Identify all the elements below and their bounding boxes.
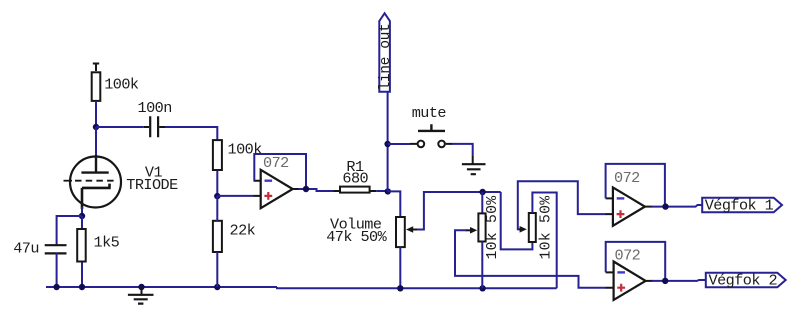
flag Végfok 2	[706, 272, 786, 290]
triode plate	[81, 155, 108, 173]
node E (pot1 top tee)	[479, 189, 485, 195]
svg-text:Végfok 1: Végfok 1	[705, 197, 774, 215]
op-amp U3 minus	[617, 271, 625, 273]
resistor R 100k (anode load)	[92, 72, 139, 101]
op-amp U1 triangle	[261, 170, 293, 208]
wire volume wiper up and right	[417, 192, 501, 230]
op-amp U2 feedback wire	[606, 164, 665, 207]
node A (plate node)	[93, 124, 99, 130]
flag Végfok 1	[702, 197, 782, 215]
wire 1k5 bottom to bus	[81, 263, 83, 288]
triode V1 envelope	[70, 157, 121, 208]
op-amp U3 feedback wire	[606, 242, 666, 281]
op-amp U3 triangle	[614, 262, 646, 300]
op-amp U3 plus	[617, 284, 625, 292]
node D (mute tee)	[384, 141, 390, 147]
op-amp U1 input stubs	[254, 181, 261, 196]
bus junction 22k	[214, 284, 220, 290]
wire node K to 1k5	[81, 216, 83, 229]
wire volume pot bottom to bus	[399, 247, 401, 288]
wire line out down to node C	[387, 92, 389, 192]
wire node C to volume pot top	[388, 191, 401, 217]
wire 47u bottom to bus	[56, 253, 58, 287]
line out flag	[378, 13, 394, 91]
label V1 TRIODE	[126, 163, 178, 194]
ground bus right	[277, 287, 557, 288]
wire pot1 wiper to op-amp U3 plus	[455, 230, 606, 287]
triode cathode	[82, 184, 111, 209]
op-amp U2 plus	[617, 210, 625, 218]
resistor R 100k (divider top)	[213, 140, 262, 170]
resistor R 22k	[213, 221, 256, 252]
bus junction ground	[138, 284, 144, 290]
svg-text:10k 50%: 10k 50%	[485, 196, 501, 260]
svg-text:10k 50%: 10k 50%	[539, 196, 555, 260]
op-amp U3 input stubs	[606, 272, 614, 287]
wire node D to mute switch	[388, 143, 410, 145]
wire pot2 top to ground bus	[532, 193, 556, 289]
svg-text:mute: mute	[412, 104, 447, 122]
wire cap to 2nd 100k resistor	[165, 127, 217, 141]
node K (cathode node)	[79, 213, 85, 219]
node U2 out	[662, 203, 668, 209]
wire cathode to node K	[81, 207, 83, 216]
svg-text:47k 50%: 47k 50%	[326, 228, 387, 246]
wire 100k2 bottom to node B	[216, 171, 218, 196]
potentiometer Volume wiper arrow	[406, 226, 418, 233]
svg-text:line out: line out	[378, 24, 394, 91]
potentiometer Volume 47k body	[326, 216, 405, 248]
wire mute switch to ground	[452, 144, 473, 156]
resistor R1 680	[340, 158, 370, 193]
wire node A down to triode plate	[95, 127, 97, 157]
wire node B to op-amp U1 plus input	[217, 195, 254, 197]
wire node E down to pot1 top	[481, 192, 483, 213]
potentiometer P1 wiper arrow	[466, 227, 478, 234]
ground symbol left	[128, 287, 154, 304]
node U1 out	[303, 186, 309, 192]
op-amp U2 input stubs	[606, 198, 613, 214]
bus junction pot1 bottom	[479, 285, 485, 291]
node B (divider node)	[214, 193, 220, 199]
wire pot2 wiper to op-amp U2 plus	[518, 181, 606, 229]
wire node B to 22k top	[216, 196, 218, 221]
op-amp U1 plus	[264, 192, 272, 200]
op-amp U1 minus	[265, 179, 273, 181]
bus junction 1k5	[79, 284, 85, 290]
wire pot1 bottom to bus	[481, 242, 483, 289]
mute switch	[412, 104, 447, 147]
wire volume line down to pot2 bottom	[501, 192, 533, 249]
wire 22k bottom to bus	[216, 252, 218, 287]
bus junction 47u	[53, 284, 59, 290]
ground bus left	[46, 286, 277, 288]
wire node A to cap 100n	[96, 126, 144, 128]
svg-text:22k: 22k	[230, 222, 256, 240]
wire 100k bottom to node A	[95, 102, 97, 127]
op-amp U1 output wire	[293, 188, 300, 190]
svg-text:TRIODE: TRIODE	[126, 176, 178, 194]
capacitor C 47u	[13, 240, 66, 258]
bus junction volume bottom	[397, 285, 403, 291]
svg-text:100n: 100n	[138, 99, 172, 117]
triode grid (dashed)	[64, 180, 73, 182]
svg-text:1k5: 1k5	[94, 234, 120, 252]
svg-text:47u: 47u	[13, 240, 39, 258]
op-amp U2 triangle	[613, 187, 645, 225]
node U3 out	[662, 278, 668, 284]
op-amp U1 feedback wire	[254, 154, 306, 189]
capacitor C 100n	[138, 99, 172, 137]
svg-text:072: 072	[615, 246, 641, 264]
svg-text:100k: 100k	[104, 76, 139, 94]
potentiometer P1 10k body	[478, 196, 501, 260]
svg-text:072: 072	[614, 169, 640, 187]
wire R1 to node C	[370, 190, 377, 192]
supply terminal T	[93, 64, 99, 72]
svg-text:072: 072	[263, 154, 289, 172]
svg-text:680: 680	[342, 169, 368, 187]
node C (R1 / line out / volume junction)	[385, 188, 391, 194]
op-amp U2 output wire	[645, 206, 652, 208]
svg-text:100k: 100k	[228, 141, 263, 159]
ground symbol right	[462, 164, 486, 174]
op-amp U2 minus	[617, 197, 625, 199]
potentiometer P2 wiper arrow	[518, 226, 527, 233]
svg-text:Végfok 2: Végfok 2	[709, 272, 778, 290]
potentiometer P2 10k body	[529, 196, 555, 260]
wire node K left to 47u	[57, 216, 82, 246]
op-amp U3 output wire	[646, 280, 653, 282]
resistor R 1k5	[77, 229, 119, 262]
